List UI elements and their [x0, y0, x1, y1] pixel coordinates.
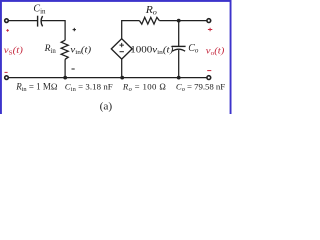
wire C_o to bottom wire	[178, 50, 180, 78]
svg-text:Rin = 1 MΩ: Rin = 1 MΩ	[15, 82, 58, 94]
wire node down to C_o	[178, 21, 180, 47]
minus mark of v_in	[72, 68, 75, 70]
input terminal bottom-left	[5, 76, 9, 80]
svg-text:vin(t): vin(t)	[70, 45, 91, 56]
svg-text:Co = 79.58 nF: Co = 79.58 nF	[176, 82, 225, 94]
svg-text:1000vin(t): 1000vin(t)	[130, 45, 174, 56]
capacitor C_in	[38, 16, 43, 27]
wire diamond top to R_o	[122, 21, 140, 39]
svg-text:Ro = 100 Ω: Ro = 100 Ω	[122, 82, 166, 94]
svg-text:vS(t): vS(t)	[4, 45, 24, 56]
output terminal top-right	[207, 19, 211, 23]
svg-text:Cin: Cin	[33, 4, 46, 16]
svg-text:Cin = 3.18 nF: Cin = 3.18 nF	[65, 82, 113, 94]
minus sign inside diamond	[120, 51, 124, 53]
junction dot below R_in	[63, 76, 67, 80]
wire top-left terminal to C_in	[9, 20, 37, 22]
plus sign inside diamond	[120, 43, 124, 47]
svg-text:Co: Co	[188, 43, 199, 55]
wire diamond bottom to bottom wire	[121, 59, 123, 78]
svg-text:Rin: Rin	[44, 43, 57, 55]
wire R_in to bottom node	[64, 59, 66, 77]
svg-text:Ro: Ro	[145, 5, 157, 17]
wire R_o to output terminal	[159, 20, 206, 22]
resistor R_o zigzag	[139, 17, 159, 24]
dependent source diamond	[111, 39, 132, 59]
capacitor C_o	[172, 46, 186, 51]
resistor R_in zigzag	[61, 40, 68, 59]
plus mark of v_in	[73, 28, 76, 31]
svg-text:(a): (a)	[100, 101, 113, 112]
input terminal top-left	[5, 19, 9, 23]
junction dot below diamond	[120, 76, 124, 80]
red minus at source input	[5, 71, 8, 73]
junction dot above C_o	[177, 19, 181, 23]
svg-text:vo(t): vo(t)	[206, 46, 225, 57]
wire C_in to corner, down to R_in	[41, 21, 65, 41]
red plus at output	[208, 28, 212, 32]
red minus at output	[207, 70, 211, 72]
red plus at source input	[6, 29, 9, 32]
junction dot below C_o	[177, 76, 181, 80]
output terminal bottom-right	[207, 76, 211, 80]
bottom wire	[9, 77, 207, 79]
